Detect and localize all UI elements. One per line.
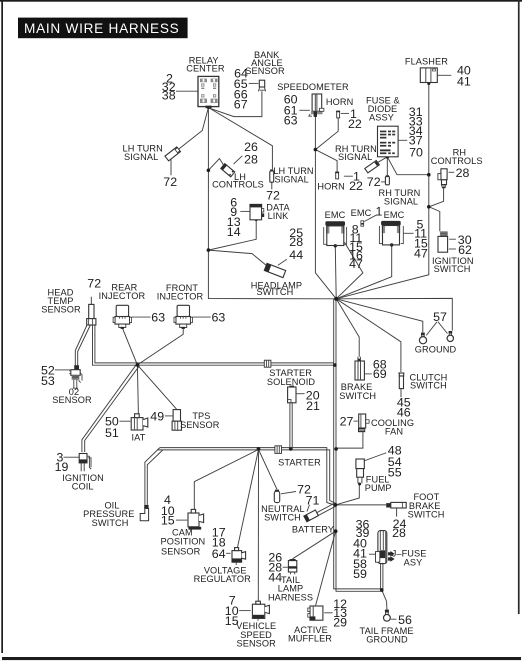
svg-text:72: 72 [367, 175, 381, 189]
svg-text:SWITCH: SWITCH [408, 510, 445, 520]
svg-text:44: 44 [268, 571, 282, 585]
svg-text:72: 72 [163, 175, 177, 189]
svg-text:COIL: COIL [72, 482, 94, 492]
svg-text:57: 57 [433, 310, 447, 324]
svg-text:INJECTOR: INJECTOR [157, 292, 204, 302]
svg-text:63: 63 [284, 114, 298, 128]
svg-text:EMC: EMC [325, 210, 346, 220]
svg-text:63: 63 [212, 311, 226, 325]
svg-text:51: 51 [105, 426, 119, 440]
svg-text:70: 70 [409, 146, 423, 160]
svg-text:HARNESS: HARNESS [268, 593, 313, 603]
svg-text:MUFFLER: MUFFLER [288, 634, 332, 644]
svg-text:27: 27 [340, 414, 354, 428]
svg-text:MAIN WIRE HARNESS: MAIN WIRE HARNESS [24, 21, 180, 36]
svg-text:53: 53 [41, 374, 55, 388]
svg-text:INJECTOR: INJECTOR [99, 291, 146, 301]
svg-text:72: 72 [87, 277, 101, 291]
svg-text:56: 56 [398, 613, 412, 627]
svg-text:67: 67 [234, 98, 248, 112]
svg-text:41: 41 [457, 74, 471, 88]
svg-text:28: 28 [392, 526, 406, 540]
svg-text:44: 44 [289, 248, 303, 262]
svg-text:SIGNAL: SIGNAL [124, 152, 158, 162]
svg-text:38: 38 [162, 89, 176, 103]
svg-text:62: 62 [458, 243, 472, 257]
svg-text:SIGNAL: SIGNAL [384, 197, 418, 207]
svg-text:POSITION: POSITION [161, 537, 206, 547]
svg-text:SWITCH: SWITCH [339, 391, 376, 401]
svg-text:14: 14 [227, 225, 241, 239]
svg-text:28: 28 [456, 166, 470, 180]
svg-text:EMC: EMC [351, 208, 372, 218]
svg-text:FLASHER: FLASHER [405, 56, 448, 66]
svg-text:21: 21 [306, 399, 320, 413]
svg-text:PUMP: PUMP [365, 483, 392, 493]
svg-text:SENSOR: SENSOR [41, 305, 81, 315]
svg-text:SIGNAL: SIGNAL [275, 174, 309, 184]
svg-text:FAN: FAN [385, 427, 403, 437]
svg-text:59: 59 [353, 567, 367, 581]
svg-text:64: 64 [212, 547, 226, 561]
svg-text:CONTROLS: CONTROLS [212, 180, 264, 190]
svg-text:SWITCH: SWITCH [92, 518, 129, 528]
svg-text:47: 47 [414, 247, 428, 261]
svg-text:15: 15 [225, 614, 239, 628]
svg-text:SENSOR: SENSOR [161, 546, 201, 556]
svg-text:SWITCH: SWITCH [410, 380, 447, 390]
svg-text:HORN: HORN [317, 182, 344, 192]
svg-text:SWITCH: SWITCH [264, 512, 301, 522]
svg-text:28: 28 [244, 152, 258, 166]
svg-text:72: 72 [266, 189, 280, 203]
svg-text:SIGNAL: SIGNAL [338, 152, 372, 162]
svg-text:LINK: LINK [268, 211, 290, 221]
svg-text:HORN: HORN [326, 97, 353, 107]
svg-text:SENSOR: SENSOR [245, 66, 285, 76]
svg-text:22: 22 [349, 179, 363, 193]
svg-text:REGULATOR: REGULATOR [194, 574, 251, 584]
svg-text:SENSOR: SENSOR [236, 639, 276, 649]
svg-text:SENSOR: SENSOR [180, 420, 220, 430]
svg-text:IAT: IAT [132, 433, 146, 443]
svg-text:SOLENOID: SOLENOID [267, 377, 316, 387]
svg-text:CENTER: CENTER [186, 64, 225, 74]
svg-text:BATTERY: BATTERY [292, 524, 334, 534]
svg-text:15: 15 [161, 514, 175, 528]
svg-text:GROUND: GROUND [415, 344, 457, 354]
svg-text:22: 22 [348, 117, 362, 131]
svg-text:47: 47 [349, 257, 363, 271]
svg-text:29: 29 [333, 616, 347, 630]
svg-text:55: 55 [388, 465, 402, 479]
svg-text:69: 69 [373, 367, 387, 381]
svg-text:49: 49 [150, 409, 164, 423]
svg-text:19: 19 [55, 460, 69, 474]
svg-text:1: 1 [376, 204, 383, 218]
svg-text:SWITCH: SWITCH [256, 287, 293, 297]
svg-text:SPEEDOMETER: SPEEDOMETER [277, 82, 349, 92]
svg-text:GROUND: GROUND [366, 635, 408, 645]
svg-text:63: 63 [151, 311, 165, 325]
svg-text:ASSY: ASSY [369, 112, 394, 122]
svg-text:SENSOR: SENSOR [52, 395, 92, 405]
svg-text:CONTROLS: CONTROLS [431, 156, 483, 166]
svg-text:SWITCH: SWITCH [434, 264, 471, 274]
svg-text:STARTER: STARTER [278, 458, 321, 468]
svg-text:ASY: ASY [404, 558, 423, 568]
svg-text:71: 71 [306, 493, 320, 507]
svg-text:46: 46 [397, 406, 411, 420]
svg-text:EMC: EMC [384, 210, 405, 220]
